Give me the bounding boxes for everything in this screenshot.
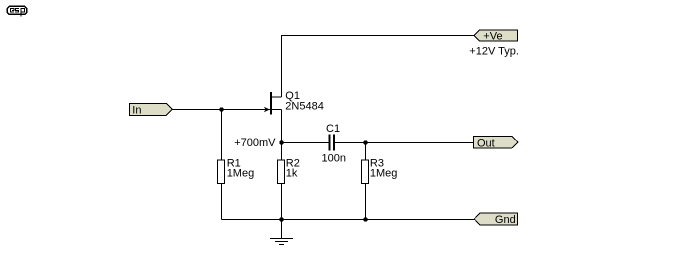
resistor R2 1k bbox=[278, 158, 300, 184]
ESP logo bbox=[7, 6, 26, 16]
wire: R1 top bbox=[221, 110, 223, 160]
resistor R1 1Meg bbox=[218, 158, 255, 184]
junction: In/R1 node bbox=[219, 107, 223, 111]
svg-text:Gnd: Gnd bbox=[495, 214, 516, 226]
junction: C1/R3 node bbox=[363, 140, 367, 144]
svg-text:100n: 100n bbox=[322, 153, 346, 165]
wire: C1 to Out bbox=[335, 142, 474, 144]
flag +Ve bbox=[474, 30, 518, 42]
svg-text:+12V Typ.: +12V Typ. bbox=[469, 46, 519, 58]
capacitor C1 100n bbox=[322, 123, 346, 165]
flag Gnd bbox=[474, 213, 517, 226]
svg-text:1k: 1k bbox=[286, 168, 298, 180]
svg-text:Out: Out bbox=[477, 137, 495, 149]
svg-text:In: In bbox=[132, 105, 141, 117]
junction: R2/ground rail bbox=[279, 217, 283, 221]
wire: gate wire from In to Q1 bbox=[172, 109, 270, 111]
junction: +700mV node bbox=[279, 140, 283, 144]
wire: ground stub bbox=[281, 220, 283, 239]
junction: R3/ground rail bbox=[363, 217, 367, 221]
svg-text:1Meg: 1Meg bbox=[370, 168, 398, 180]
wire: R1 bottom bbox=[221, 184, 223, 220]
svg-text:+Ve: +Ve bbox=[483, 30, 502, 42]
wire: node to C1 bbox=[282, 142, 329, 144]
wire: drain vertical bbox=[281, 36, 283, 98]
flag In bbox=[130, 104, 173, 117]
transistor Q1 2N5484 bbox=[264, 90, 324, 115]
svg-text:1Meg: 1Meg bbox=[227, 168, 255, 180]
wire: R2 top bbox=[281, 143, 283, 160]
wire: ground rail bbox=[222, 219, 475, 221]
wire: +Ve top rail bbox=[281, 35, 475, 37]
wire: R3 top bbox=[365, 143, 367, 160]
svg-text:C1: C1 bbox=[326, 123, 340, 135]
wire: R3 bottom bbox=[365, 184, 367, 220]
wire: source down to +700mV node bbox=[281, 110, 283, 143]
svg-text:2N5484: 2N5484 bbox=[285, 101, 324, 113]
flag Out bbox=[474, 137, 519, 150]
svg-text:+700mV: +700mV bbox=[234, 137, 276, 149]
wire: R2 bottom bbox=[281, 184, 283, 220]
resistor R3 1Meg bbox=[362, 158, 398, 184]
ground bbox=[270, 239, 293, 245]
